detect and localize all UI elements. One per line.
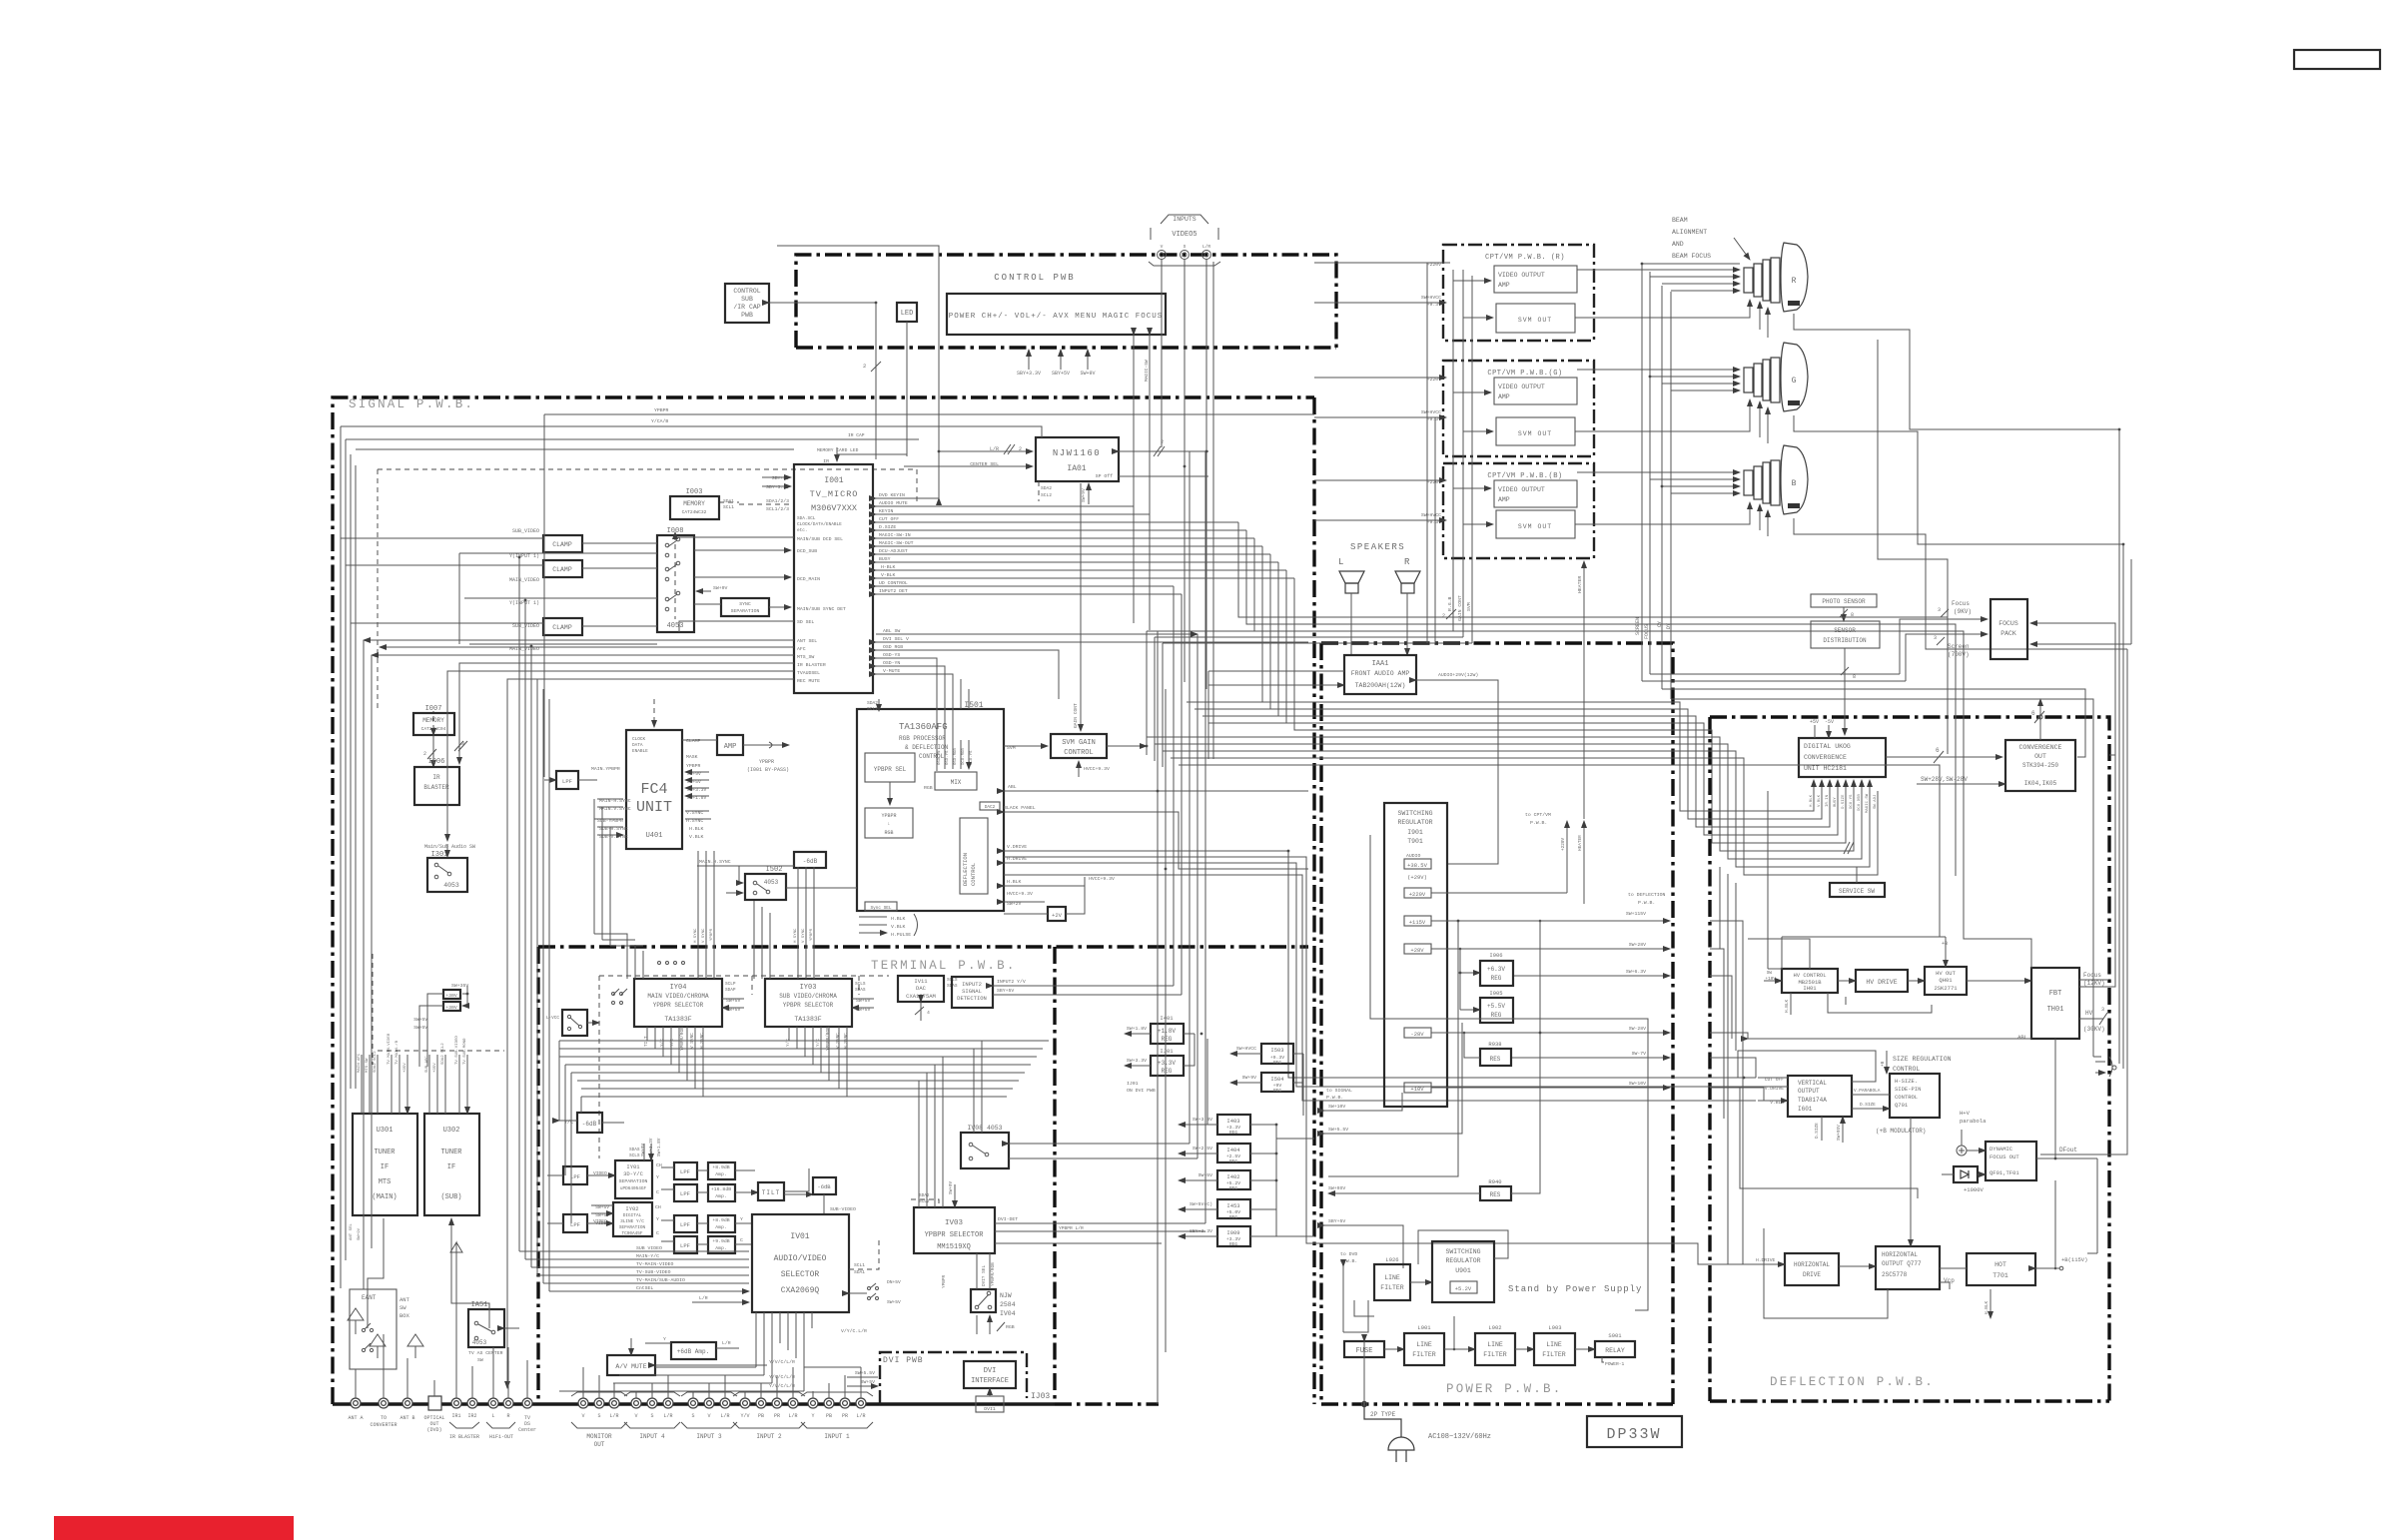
- svg-text:+35V: +35V: [433, 1063, 437, 1073]
- input 3 jacks: [688, 1398, 730, 1408]
- svg-text:parabola: parabola: [1960, 1118, 1987, 1125]
- svg-text:SEPARATION: SEPARATION: [619, 1178, 648, 1184]
- svg-text:IR.IN: IR.IN: [1826, 794, 1830, 807]
- svg-text:CONTROL: CONTROL: [733, 288, 760, 295]
- svg-text:S: S: [691, 1413, 694, 1419]
- svg-text:4053: 4053: [472, 1339, 487, 1346]
- svg-text:↓: ↓: [887, 821, 890, 827]
- svg-text:I504: I504: [1270, 1076, 1284, 1083]
- svg-text:+35V: +35V: [403, 1063, 407, 1073]
- svg-text:G: G: [1792, 377, 1797, 385]
- svg-text:HiFi-OUT: HiFi-OUT: [489, 1434, 513, 1440]
- svg-text:ANT B: ANT B: [399, 1415, 414, 1421]
- svg-text:IJ03: IJ03: [1031, 1392, 1050, 1401]
- svg-text:Y/V: Y/V: [740, 1413, 749, 1419]
- svg-text:SVM OUT: SVM OUT: [1518, 523, 1552, 530]
- svg-text:OSD.RGB: OSD.RGB: [954, 748, 958, 765]
- svg-text:HV CONTROL: HV CONTROL: [1793, 972, 1826, 979]
- front key panel: [947, 294, 1166, 335]
- svg-text:SUB VIDEO/CHROMA: SUB VIDEO/CHROMA: [779, 993, 837, 1000]
- svg-text:I006: I006: [428, 758, 445, 766]
- svg-text:V/Y/C.L/R: V/Y/C.L/R: [841, 1328, 867, 1334]
- svg-text:REG: REG: [1229, 1186, 1237, 1191]
- screen/focus/cy/dy verticals: [1642, 264, 1671, 699]
- svg-text:(+29V): (+29V): [1407, 874, 1427, 881]
- svg-text:-6dB: -6dB: [582, 1121, 597, 1128]
- svg-text:BUSY: BUSY: [1834, 797, 1838, 807]
- svg-text:CONTROL: CONTROL: [1893, 1066, 1920, 1073]
- svg-text:H SYNC: H SYNC: [794, 928, 798, 943]
- tuner U301: [353, 1114, 417, 1215]
- svg-text:TAB200AH(12W): TAB200AH(12W): [1355, 682, 1406, 689]
- svg-text:S: S: [1184, 244, 1187, 250]
- svg-text:CONTROL: CONTROL: [970, 863, 977, 886]
- reg feed wires: [1207, 1039, 1276, 1236]
- svg-text:FC4: FC4: [640, 781, 667, 798]
- deflection loop wires: [1738, 1051, 1876, 1082]
- svg-text:DVI-DET: DVI-DET: [998, 1216, 1018, 1222]
- svg-text:MEMORY: MEMORY: [683, 500, 705, 507]
- svg-text:SCREEN: SCREEN: [1635, 617, 1641, 635]
- input 1 jacks: [808, 1398, 866, 1408]
- svg-text:HVCC+9.3V: HVCC+9.3V: [1007, 891, 1033, 897]
- I001 lower right wires: [876, 633, 1197, 635]
- svg-text:EANT: EANT: [362, 1294, 377, 1301]
- svg-text:LPF: LPF: [680, 1242, 690, 1249]
- svg-text:IV04: IV04: [1000, 1310, 1016, 1317]
- svg-text:V.BLK: V.BLK: [891, 924, 906, 930]
- svg-text:+16.8dB: +16.8dB: [711, 1186, 731, 1192]
- svm gain control: [1051, 734, 1107, 758]
- svg-text:U901: U901: [1455, 1267, 1471, 1274]
- video output amp R: [1494, 266, 1577, 293]
- svg-text:DYNAMIC: DYNAMIC: [1990, 1146, 2013, 1153]
- svg-text:CLOCK: CLOCK: [632, 737, 646, 742]
- svg-text:3: 3: [1934, 635, 1937, 641]
- svg-text:+5.5V: +5.5V: [1487, 1003, 1505, 1010]
- video output amp G: [1494, 378, 1577, 404]
- svg-text:TV.MAIN.VIDEO: TV.MAIN.VIDEO: [388, 1033, 392, 1065]
- svg-text:PR: PR: [774, 1413, 780, 1419]
- ypbpr sel sub-block: [865, 753, 915, 782]
- vertical trunk right of terminal: [1158, 631, 1166, 1404]
- svg-text:NJW1160: NJW1160: [1053, 448, 1101, 458]
- svg-text:+220V: +220V: [1561, 837, 1566, 851]
- svg-text:SCL1: SCL1: [723, 504, 734, 510]
- svg-text:REG: REG: [1491, 975, 1502, 982]
- iv01 to jack drops: [756, 1312, 812, 1391]
- svg-text:TDA8174A: TDA8174A: [1798, 1097, 1827, 1104]
- svg-text:H-BLK: H-BLK: [881, 564, 896, 570]
- svg-text:LINE: LINE: [1546, 1341, 1562, 1348]
- svg-text:Amp.: Amp.: [715, 1224, 727, 1230]
- svg-text:DAC: DAC: [916, 985, 927, 992]
- svg-text:LPF: LPF: [562, 778, 572, 785]
- svg-text:PR: PR: [842, 1413, 848, 1419]
- fbt: [2031, 968, 2079, 1039]
- svg-text:T701: T701: [1992, 1272, 2008, 1279]
- svg-text:DCU.RGB: DCU.RGB: [962, 748, 966, 765]
- deflection control sub-block: [960, 818, 988, 894]
- svg-text:V SYNC: V SYNC: [802, 928, 806, 943]
- svg-text:MTS_SW: MTS_SW: [797, 654, 814, 660]
- svg-text:TV_MICRO: TV_MICRO: [810, 489, 859, 499]
- svg-text:MAIN.YPBPR: MAIN.YPBPR: [591, 766, 620, 772]
- cpt/vm pwb (G) border: [1443, 361, 1594, 456]
- clamp 1: [543, 535, 582, 552]
- svg-text:L/R: L/R: [856, 1413, 865, 1419]
- svg-text:YPBPR: YPBPR: [942, 1274, 947, 1288]
- svg-text:SW+2.5V: SW+2.5V: [1193, 1146, 1212, 1152]
- svg-text:CAT24WC32: CAT24WC32: [682, 509, 707, 515]
- bottom jacks: terminal monitor out: [578, 1398, 619, 1408]
- svg-text:IV01: IV01: [790, 1232, 809, 1241]
- svg-text:SW+5V: SW+5V: [861, 1379, 876, 1385]
- svg-text:OSD.YS: OSD.YS: [946, 750, 950, 765]
- power chain wires: [1384, 1348, 1404, 1350]
- svg-text:REG: REG: [1229, 1215, 1237, 1220]
- amp to gun wires B: [1577, 471, 1740, 473]
- svg-text:BLACK PANEL: BLACK PANEL: [1004, 805, 1036, 811]
- svg-text:QF01,TF01: QF01,TF01: [1990, 1169, 2019, 1176]
- svg-text:A/V MUTE: A/V MUTE: [615, 1363, 646, 1370]
- speaker wires: [1351, 593, 1407, 655]
- svg-text:TH01: TH01: [2047, 1006, 2064, 1014]
- svg-text:(I001 BY-PASS): (I001 BY-PASS): [747, 767, 789, 773]
- svg-text:2: 2: [863, 363, 866, 370]
- svg-text:Y/C: Y/C: [816, 1039, 821, 1047]
- +28V tap: [1404, 944, 1431, 954]
- svg-text:INPUT 2: INPUT 2: [756, 1433, 782, 1440]
- +6db amp: [671, 1342, 716, 1359]
- svg-text:Y/CA/B: Y/CA/B: [651, 418, 668, 424]
- svg-text:SW+35V: SW+35V: [451, 983, 468, 989]
- svg-text:+220V: +220V: [1409, 891, 1426, 898]
- svg-text:SBY+5V: SBY+5V: [772, 475, 789, 481]
- svg-text:SW+1.8V: SW+1.8V: [657, 1138, 662, 1156]
- svg-text:BOX: BOX: [399, 1312, 410, 1319]
- svg-text:IR BLASTER: IR BLASTER: [797, 662, 826, 668]
- svg-text:POWER CH+/- VOL+/- AVX MENU MA: POWER CH+/- VOL+/- AVX MENU MAGIC FOCUS: [949, 313, 1164, 321]
- svg-text:+B: +B: [1942, 941, 1948, 947]
- svg-text:+1000V: +1000V: [1964, 1186, 1985, 1193]
- svg-text:SW: SW: [399, 1304, 406, 1311]
- svg-text:SCL1/2/3: SCL1/2/3: [766, 506, 789, 512]
- svg-text:IR: IR: [432, 774, 440, 781]
- svg-text:FRONT AUDIO AMP: FRONT AUDIO AMP: [1351, 670, 1410, 677]
- svg-text:INPUT2 DET: INPUT2 DET: [879, 588, 908, 594]
- svg-text:YPBPR: YPBPR: [759, 759, 774, 765]
- svg-text:SVM GAIN: SVM GAIN: [1062, 739, 1096, 747]
- hv drive: [1856, 970, 1908, 992]
- svg-text:REG: REG: [1491, 1012, 1502, 1019]
- svg-text:RES: RES: [1490, 1191, 1501, 1198]
- svg-text:SW+HVCC: SW+HVCC: [1421, 512, 1441, 518]
- svg-text:to DEFLECTION: to DEFLECTION: [1628, 892, 1666, 898]
- svg-text:HEATER: HEATER: [1577, 576, 1583, 593]
- svg-text:+10V: +10V: [1410, 1086, 1424, 1093]
- svg-text:YPBPR/RGB: YPBPR/RGB: [991, 1262, 996, 1286]
- svg-text:V-MUTE: V-MUTE: [883, 668, 900, 674]
- svg-text:Y: Y: [811, 1413, 814, 1419]
- svg-text:I402: I402: [1226, 1173, 1239, 1180]
- svg-text:6: 6: [1936, 747, 1940, 754]
- svg-text:(DVD): (DVD): [426, 1427, 441, 1433]
- lower horizontal trunk: [1147, 737, 1854, 851]
- red footer block: [54, 1516, 294, 1540]
- dfout line right: [2087, 1158, 2097, 1253]
- svg-text:V-BLK: V-BLK: [881, 572, 896, 578]
- wire control sub to led column: [769, 303, 876, 459]
- svg-text:L/R: L/R: [720, 1413, 729, 1419]
- deflection power rails: [1710, 921, 1743, 1264]
- svg-text:SDA2: SDA2: [1041, 485, 1052, 491]
- svg-text:VERTICAL: VERTICAL: [1798, 1080, 1827, 1087]
- svg-text:to DVD: to DVD: [1340, 1251, 1357, 1257]
- svg-text:REC MUTE: REC MUTE: [797, 678, 820, 684]
- svg-text:LPF: LPF: [680, 1190, 690, 1197]
- hv feedback long: [2054, 1039, 2056, 1158]
- svg-text:Y: Y: [656, 1174, 659, 1180]
- svg-text:INPUTS: INPUTS: [1173, 216, 1196, 223]
- svg-text:Y/V/C/L/R: Y/V/C/L/R: [769, 1383, 795, 1389]
- svg-text:LPF: LPF: [570, 1221, 580, 1228]
- svg-text:YPBPR/RGB: YPBPR/RGB: [680, 1027, 685, 1051]
- svg-text:TO: TO: [381, 1415, 387, 1421]
- svg-text:V.DRIVE: V.DRIVE: [1007, 844, 1027, 850]
- svg-text:DFout: DFout: [2059, 1147, 2077, 1154]
- svg-text:MASK: MASK: [686, 754, 698, 760]
- svg-text:SCLP: SCLP: [725, 982, 736, 987]
- svg-text:ANT SEL: ANT SEL: [797, 638, 817, 644]
- lpf input 3line: [563, 1214, 587, 1232]
- cpt/vm pwb (R) border: [1443, 245, 1594, 341]
- svg-text:Y: Y: [663, 1336, 666, 1342]
- svg-text:(+B MODULATOR): (+B MODULATOR): [1876, 1128, 1926, 1135]
- svg-text:TV.MAIN./B: TV.MAIN./B: [395, 1040, 399, 1065]
- svg-text:to CPT/VM: to CPT/VM: [1525, 812, 1551, 818]
- svg-text:PHOTO SENSOR: PHOTO SENSOR: [1822, 598, 1866, 605]
- njw1160 audio ic: [1036, 437, 1119, 481]
- svg-text:SW+HVCC: SW+HVCC: [1421, 409, 1441, 415]
- risers into IV03/IV08: [919, 1057, 943, 1207]
- svg-text:ANT: ANT: [399, 1296, 410, 1303]
- diode block: [1954, 1166, 1978, 1182]
- svg-text:V: V: [581, 1413, 584, 1419]
- svg-text:QH01: QH01: [1939, 977, 1953, 984]
- svg-text:DATA: DATA: [632, 743, 643, 748]
- svg-text:DCD_MAIN: DCD_MAIN: [797, 576, 820, 582]
- svg-text:TA1383F: TA1383F: [794, 1016, 821, 1023]
- svg-text:YPBPR: YPBPR: [686, 763, 701, 769]
- svg-text:MEMORY: MEMORY: [422, 717, 444, 724]
- svg-text:R: R: [1404, 557, 1410, 567]
- svg-text:SELECTOR: SELECTOR: [781, 1270, 820, 1279]
- svg-text:SUB AFC: SUB AFC: [425, 1056, 429, 1073]
- switch poles I008: [665, 537, 680, 611]
- svg-text:LPF: LPF: [570, 1173, 580, 1180]
- svg-text:+28V: +28V: [1410, 947, 1424, 954]
- svg-text:SW+5V(C): SW+5V(C): [1190, 1201, 1212, 1207]
- svg-text:IH01: IH01: [1803, 985, 1817, 992]
- svg-text:SBY+5V: SBY+5V: [1328, 1218, 1345, 1224]
- svg-text:SDAS: SDAS: [629, 1148, 640, 1153]
- svg-text:(700V): (700V): [1948, 651, 1970, 658]
- svg-text:OUT: OUT: [594, 1441, 605, 1448]
- svg-text:BEAM: BEAM: [1672, 217, 1688, 224]
- switch columns before IY04: [612, 962, 685, 1005]
- svg-text:PWB: PWB: [741, 312, 753, 319]
- svg-text:IY04: IY04: [670, 984, 687, 992]
- -6db terminal: [813, 1177, 836, 1194]
- svg-text:Y/V/C/L/R: Y/V/C/L/R: [769, 1359, 795, 1365]
- svg-text:DVD KEYIN: DVD KEYIN: [879, 492, 905, 498]
- svg-text:INPUT 3: INPUT 3: [696, 1433, 722, 1440]
- svg-text:AC108~132V/60Hz: AC108~132V/60Hz: [1428, 1433, 1491, 1441]
- svg-text:SW+115V: SW+115V: [1626, 911, 1646, 917]
- svg-text:SDA1: SDA1: [723, 498, 734, 504]
- svg-text:SW.ADJ: SW.ADJ: [1874, 795, 1878, 809]
- svg-text:L/R: L/R: [699, 1295, 708, 1301]
- svg-text:GAIN CONT: GAIN CONT: [1073, 703, 1079, 728]
- svg-text:POWER-1: POWER-1: [1605, 1361, 1625, 1367]
- CRT B bulb: [1781, 445, 1808, 514]
- feedback from hv to control: [1828, 993, 1932, 1013]
- svg-text:+30V: +30V: [445, 993, 457, 999]
- svg-text:DCU.YS: DCU.YS: [1850, 794, 1854, 809]
- svg-text:I007: I007: [425, 705, 442, 713]
- svg-text:H+V: H+V: [1960, 1110, 1971, 1117]
- wire keyin up: [777, 246, 939, 498]
- svg-text:Amp.: Amp.: [715, 1171, 727, 1177]
- svg-text:AMP: AMP: [1498, 496, 1510, 503]
- svg-text:I403: I403: [1226, 1118, 1239, 1125]
- svg-text:MAIN/SUB SYNC DET: MAIN/SUB SYNC DET: [797, 606, 846, 612]
- svg-text:MAIN/SUB DCD SEL: MAIN/SUB DCD SEL: [797, 536, 843, 542]
- i2c dashed bus: [378, 469, 917, 504]
- svg-text:CONTROL: CONTROL: [1064, 749, 1093, 757]
- svg-text:SW+5.5V: SW+5.5V: [855, 1370, 875, 1376]
- svg-text:R.G.B: R.G.B: [1447, 596, 1453, 611]
- svg-text:AUDIO+29V(12W): AUDIO+29V(12W): [1438, 672, 1478, 678]
- svg-text:Y(INPUT 1): Y(INPUT 1): [509, 553, 539, 559]
- svg-text:IY03: IY03: [800, 984, 817, 992]
- svg-text:Y: Y: [740, 1216, 743, 1222]
- svg-text:YPBPR SEL: YPBPR SEL: [874, 766, 907, 773]
- svg-text:3: 3: [1938, 607, 1941, 613]
- svg-text:TV-SUB-VIDEO: TV-SUB-VIDEO: [636, 1269, 671, 1275]
- regulator I404: [1217, 1144, 1250, 1162]
- svg-text:SVM OUT: SVM OUT: [1518, 317, 1552, 324]
- CRT R bulb: [1781, 243, 1808, 312]
- CRT G gun rings: [1744, 358, 1780, 402]
- svg-text:TILT: TILT: [762, 1189, 780, 1196]
- svg-text:2SC5778: 2SC5778: [1882, 1271, 1908, 1278]
- svg-text:L/R: L/R: [788, 1413, 797, 1419]
- I001 left-bottom control outputs: [364, 639, 794, 641]
- svg-text:DRIVE: DRIVE: [1803, 1271, 1821, 1278]
- svg-text:AMP: AMP: [724, 743, 737, 751]
- svg-text:Amp.: Amp.: [715, 1193, 727, 1199]
- svg-text:CPT/VM P.W.B.(G): CPT/VM P.W.B.(G): [1487, 370, 1562, 378]
- svg-text:OSD-YN: OSD-YN: [883, 660, 900, 666]
- staircase upper bundle to power: [1238, 522, 1948, 754]
- svg-text:3D-Y/C: 3D-Y/C: [623, 1170, 644, 1177]
- svg-text:DETECTION: DETECTION: [957, 995, 987, 1002]
- left connector risers: [356, 1248, 527, 1398]
- svg-text:ANT A: ANT A: [348, 1415, 363, 1421]
- cpt/vm supply horizontals: [1314, 263, 1441, 303]
- svg-text:AUDIO/VIDEO: AUDIO/VIDEO: [774, 1254, 827, 1263]
- svg-text:4053: 4053: [667, 622, 684, 630]
- svg-text:DN+5V: DN+5V: [887, 1279, 901, 1285]
- svg-text:SBY+3.3V: SBY+3.3V: [1017, 371, 1041, 377]
- svg-text:SUB VIDEO: SUB VIDEO: [636, 1245, 662, 1251]
- svg-text:DP33W: DP33W: [1606, 1426, 1661, 1443]
- svg-text:TUNER: TUNER: [440, 1149, 462, 1156]
- tuner feed fan: [362, 1055, 407, 1114]
- svg-text:H.BLK: H.BLK: [1785, 999, 1790, 1013]
- svg-text:IF: IF: [447, 1163, 455, 1171]
- svg-text:MAIN.H.SYNC: MAIN.H.SYNC: [699, 859, 731, 865]
- svg-text:LINE: LINE: [1487, 1341, 1503, 1348]
- svg-text:SW+9V: SW+9V: [1242, 1075, 1257, 1081]
- crt cathode return wires: [1794, 314, 2119, 429]
- svg-text:REGULATOR: REGULATOR: [1397, 819, 1432, 826]
- svg-text:+1.8V: +1.8V: [1158, 1028, 1176, 1035]
- svg-text:I503: I503: [1270, 1047, 1283, 1054]
- svg-text:I003: I003: [686, 488, 703, 496]
- CRT R gun rings: [1744, 258, 1780, 303]
- regulator I403: [1217, 1115, 1250, 1135]
- svg-text:+5V: +5V: [1810, 719, 1819, 725]
- svg-text:ABL SW: ABL SW: [883, 628, 900, 634]
- svg-text:INPUT2 Y/V: INPUT2 Y/V: [997, 979, 1026, 985]
- svg-text:IJ01: IJ01: [1127, 1081, 1139, 1087]
- sync separation: [721, 598, 769, 616]
- selector drops: [647, 1027, 703, 1097]
- svg-text:YPBPR SELECTOR: YPBPR SELECTOR: [783, 1002, 834, 1009]
- njw2584 switch: [971, 1289, 996, 1312]
- I008 to I001 wires: [694, 549, 791, 551]
- svg-text:SDA2: SDA2: [867, 700, 878, 706]
- svg-text:BLASTER: BLASTER: [423, 784, 449, 791]
- svg-text:CLAMP: CLAMP: [686, 738, 701, 744]
- svg-text:D.SIZE: D.SIZE: [1860, 1103, 1876, 1108]
- svg-text:DIGITAL: DIGITAL: [623, 1213, 642, 1218]
- svg-text:RGB: RGB: [924, 785, 933, 791]
- svg-text:I453: I453: [1226, 1202, 1239, 1209]
- hv out: [1925, 967, 1967, 995]
- svg-text:SW+HVCC: SW+HVCC: [1236, 1046, 1256, 1052]
- svg-text:DIGITAL UKOG: DIGITAL UKOG: [1804, 743, 1851, 750]
- frame box top-right: [2294, 50, 2380, 69]
- svg-text:SUB_VIDEO: SUB_VIDEO: [512, 528, 539, 534]
- svg-text:MAGIC-SW-OUT: MAGIC-SW-OUT: [879, 540, 914, 546]
- svg-text:IY02: IY02: [625, 1205, 638, 1212]
- antenna switch box: [350, 1289, 397, 1369]
- svg-text:CH: CH: [655, 1204, 661, 1210]
- svg-text:ON DVI PWB: ON DVI PWB: [1127, 1088, 1156, 1094]
- svg-text:SUB: SUB: [741, 296, 753, 303]
- ypbpr-rgb sub-block: [865, 808, 913, 838]
- svg-text:L: L: [491, 1413, 494, 1419]
- svg-text:V SYNC: V SYNC: [702, 928, 706, 943]
- svg-text:TV-MAIN/SUB-AUDIO: TV-MAIN/SUB-AUDIO: [636, 1277, 685, 1283]
- svg-text:Amp.: Amp.: [715, 1245, 727, 1251]
- svg-text:4: 4: [927, 1010, 930, 1016]
- jack V: [1158, 251, 1167, 260]
